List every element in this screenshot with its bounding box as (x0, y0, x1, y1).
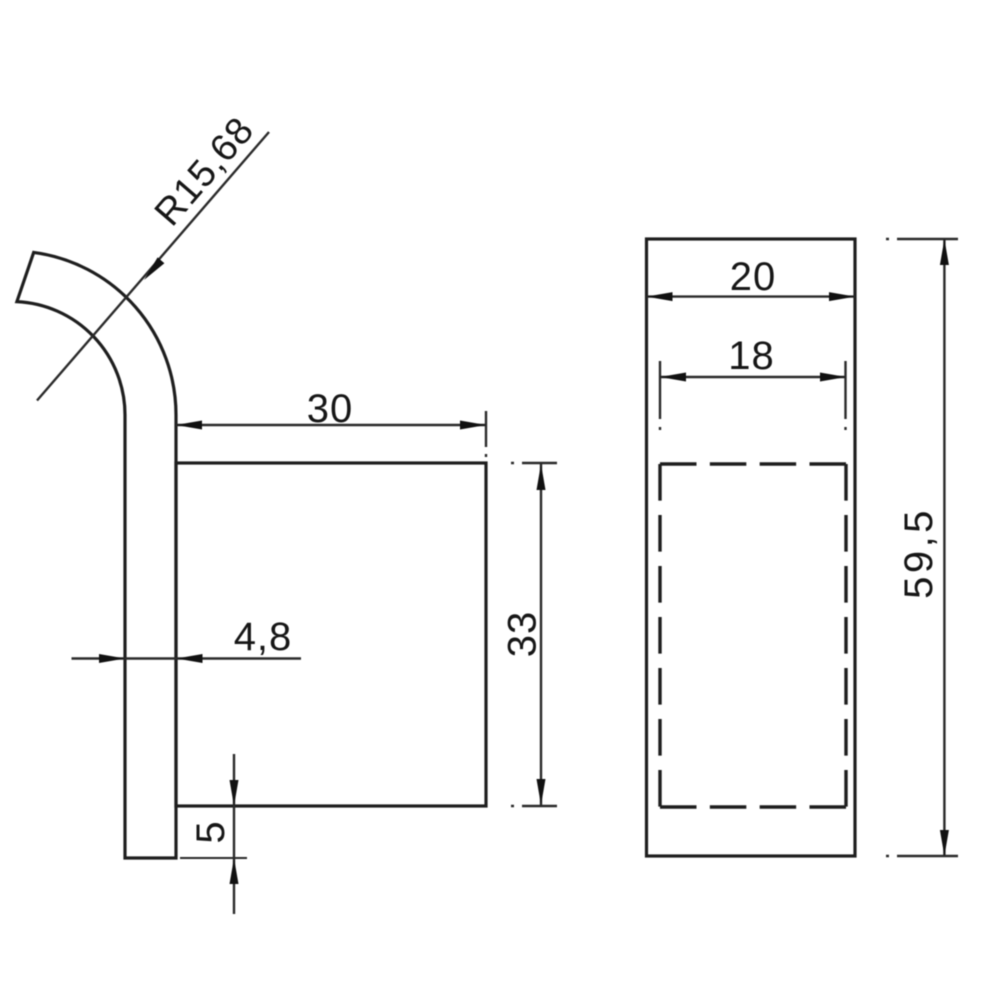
arrow dim5 lower (230, 858, 239, 884)
svg-text:4,8: 4,8 (234, 615, 293, 659)
dimension line 18 (660, 376, 846, 378)
extension line right of dim 30 (dash-dot) (485, 411, 487, 462)
svg-text:59,5: 59,5 (897, 507, 941, 599)
svg-text:33: 33 (501, 611, 545, 658)
arrow dim33 bottom (537, 779, 546, 805)
radius leader line R15,68 (37, 132, 269, 401)
hidden dashed rectangle: right edge (844, 464, 847, 807)
dimension line 5 (233, 754, 235, 914)
hidden dashed rectangle: left edge (658, 464, 661, 807)
arrow dim30 right (460, 421, 486, 430)
arrow dim33 top (537, 464, 546, 490)
right view rectangle 20x59.5 (647, 239, 856, 856)
arrow dim4,8 left (99, 654, 125, 663)
extension dash-dot bottom of dim 59,5 (886, 855, 958, 857)
hidden dashed rectangle 18 wide: top edge (660, 462, 846, 465)
arrow dim30 left (176, 421, 202, 430)
hook strip outline (side view) (17, 252, 176, 858)
body rectangle (side view plate 30x33) (176, 463, 486, 806)
extension dash-dot bottom of dim 33 (504, 805, 557, 807)
dimension line 30 (176, 424, 486, 426)
dimension line 33 (540, 464, 542, 805)
arrow radius leader (144, 257, 164, 280)
arrow dim18 left (660, 373, 686, 382)
arrow dim4,8 right (177, 654, 203, 663)
extension dash-dot top of dim 59,5 (886, 238, 958, 240)
svg-text:18: 18 (728, 334, 775, 378)
arrow dim18 right (820, 373, 846, 382)
extension line right of dim 18 (844, 361, 846, 433)
arrow dim59,5 bottom (940, 830, 949, 856)
dimension line 4,8 (72, 657, 302, 659)
svg-text:20: 20 (730, 255, 777, 299)
arrow dim59,5 top (940, 239, 949, 265)
arrow dim20 left (647, 292, 673, 301)
svg-text:30: 30 (307, 387, 354, 431)
extension line left of dim 18 (659, 361, 661, 433)
extension of strip bottom for dim 5 (180, 857, 247, 859)
dimension line 59,5 (943, 239, 945, 856)
extension dash-dot top of dim 33 (504, 462, 557, 464)
dimension line 20 (647, 295, 856, 297)
hidden dashed rectangle: bottom edge (660, 805, 846, 808)
arrow dim20 right (829, 292, 855, 301)
arrow dim5 upper (230, 780, 239, 806)
svg-text:5: 5 (189, 820, 233, 843)
